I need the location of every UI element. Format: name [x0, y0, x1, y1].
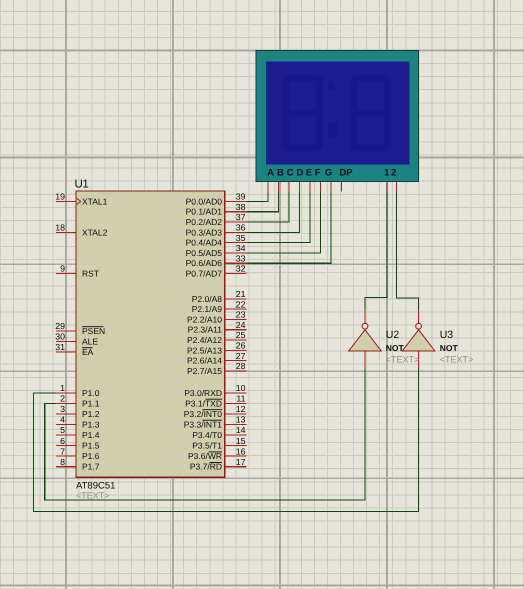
svg-text:XTAL1: XTAL1 — [82, 196, 108, 206]
svg-text:P2.3/A11: P2.3/A11 — [188, 325, 223, 335]
svg-text:27: 27 — [236, 351, 246, 361]
svg-text:F: F — [315, 168, 321, 179]
svg-text:25: 25 — [236, 330, 246, 340]
svg-text:<TEXT>: <TEXT> — [76, 491, 110, 501]
svg-text:19: 19 — [55, 192, 65, 202]
svg-text:RST: RST — [82, 269, 99, 279]
svg-text:C: C — [287, 168, 294, 179]
svg-text:P2.2/A10: P2.2/A10 — [187, 314, 222, 324]
svg-text:17: 17 — [236, 457, 246, 467]
svg-text:P0.3/AD3: P0.3/AD3 — [186, 227, 223, 237]
svg-text:P1.7: P1.7 — [82, 462, 100, 472]
svg-text:PSEN: PSEN — [82, 326, 105, 336]
svg-text:2: 2 — [391, 168, 396, 179]
svg-text:10: 10 — [236, 383, 246, 393]
svg-text:P2.1/A9: P2.1/A9 — [192, 304, 223, 314]
svg-text:P0.6/AD6: P0.6/AD6 — [186, 258, 223, 268]
svg-text:DP: DP — [339, 168, 353, 179]
svg-text:P2.6/A14: P2.6/A14 — [187, 356, 222, 366]
svg-text:EA: EA — [82, 347, 94, 357]
svg-text:P3.4/T0: P3.4/T0 — [192, 430, 222, 440]
svg-text:36: 36 — [236, 223, 246, 233]
svg-text:28: 28 — [236, 361, 246, 371]
svg-text:32: 32 — [236, 264, 246, 274]
svg-text:3: 3 — [60, 404, 65, 414]
svg-text:14: 14 — [236, 425, 246, 435]
svg-text:33: 33 — [236, 253, 246, 263]
svg-text:P1.1: P1.1 — [82, 398, 100, 408]
svg-text:P1.0: P1.0 — [82, 388, 100, 398]
svg-text:B: B — [277, 168, 284, 179]
svg-text:18: 18 — [55, 223, 65, 233]
svg-text:P0.1/AD1: P0.1/AD1 — [186, 207, 223, 217]
svg-text:P0.2/AD2: P0.2/AD2 — [186, 217, 223, 227]
svg-text:8: 8 — [60, 457, 65, 467]
svg-text:P0.7/AD7: P0.7/AD7 — [186, 269, 223, 279]
svg-text:1: 1 — [384, 168, 390, 179]
svg-text:G: G — [325, 168, 332, 179]
svg-text:15: 15 — [236, 436, 246, 446]
svg-text:16: 16 — [236, 446, 246, 456]
svg-text:P1.4: P1.4 — [82, 430, 100, 440]
svg-text:24: 24 — [236, 320, 246, 330]
svg-text:P1.6: P1.6 — [82, 451, 100, 461]
svg-text:P3.6/WR: P3.6/WR — [188, 451, 222, 461]
svg-text:U3: U3 — [440, 329, 454, 341]
svg-text:21: 21 — [236, 289, 246, 299]
svg-text:11: 11 — [236, 394, 245, 404]
svg-text:30: 30 — [55, 332, 65, 342]
svg-text:26: 26 — [236, 341, 246, 351]
svg-text:P0.4/AD4: P0.4/AD4 — [186, 238, 223, 248]
svg-text:D: D — [296, 168, 303, 179]
svg-text:P3.7/RD: P3.7/RD — [190, 462, 222, 472]
svg-text:P3.2/INT0: P3.2/INT0 — [184, 409, 223, 419]
svg-text:7: 7 — [60, 446, 65, 456]
svg-text:<TEXT>: <TEXT> — [440, 355, 474, 365]
svg-text:P3.5/T1: P3.5/T1 — [192, 441, 222, 451]
svg-text:P0.5/AD5: P0.5/AD5 — [186, 248, 223, 258]
svg-text:P1.5: P1.5 — [82, 441, 100, 451]
svg-text:29: 29 — [55, 321, 65, 331]
svg-text:23: 23 — [236, 310, 246, 320]
svg-text:P1.2: P1.2 — [82, 409, 100, 419]
svg-text:U2: U2 — [386, 329, 400, 341]
svg-text:P0.0/AD0: P0.0/AD0 — [186, 196, 223, 206]
svg-text:P2.5/A13: P2.5/A13 — [187, 345, 222, 355]
svg-text:P2.4/A12: P2.4/A12 — [187, 335, 222, 345]
svg-text:NOT: NOT — [440, 343, 459, 353]
svg-text:34: 34 — [236, 243, 246, 253]
svg-text:4: 4 — [60, 415, 65, 425]
svg-text:P3.3/INT1: P3.3/INT1 — [184, 419, 223, 429]
svg-text:<TEXT>: <TEXT> — [386, 355, 420, 365]
svg-text:9: 9 — [60, 264, 65, 274]
svg-text:13: 13 — [236, 415, 246, 425]
svg-text:P3.0/RXD: P3.0/RXD — [184, 388, 222, 398]
svg-text:31: 31 — [55, 342, 65, 352]
svg-text:5: 5 — [60, 425, 65, 435]
svg-text:35: 35 — [236, 233, 246, 243]
svg-text:12: 12 — [236, 404, 246, 414]
svg-text:1: 1 — [60, 383, 65, 393]
svg-text:39: 39 — [236, 192, 246, 202]
svg-text:6: 6 — [60, 436, 65, 446]
svg-text:22: 22 — [236, 299, 246, 309]
svg-text:ALE: ALE — [82, 337, 98, 347]
svg-text:U1: U1 — [75, 179, 89, 191]
svg-text:P2.7/A15: P2.7/A15 — [187, 366, 222, 376]
svg-text:E: E — [306, 168, 312, 179]
svg-text:P3.1/TXD: P3.1/TXD — [185, 398, 222, 408]
svg-text:38: 38 — [236, 202, 246, 212]
svg-text:P2.0/A8: P2.0/A8 — [192, 294, 223, 304]
svg-text:37: 37 — [236, 212, 246, 222]
svg-text:XTAL2: XTAL2 — [82, 227, 108, 237]
svg-text:2: 2 — [60, 394, 65, 404]
svg-text:P1.3: P1.3 — [82, 419, 100, 429]
svg-text:A: A — [267, 168, 274, 179]
